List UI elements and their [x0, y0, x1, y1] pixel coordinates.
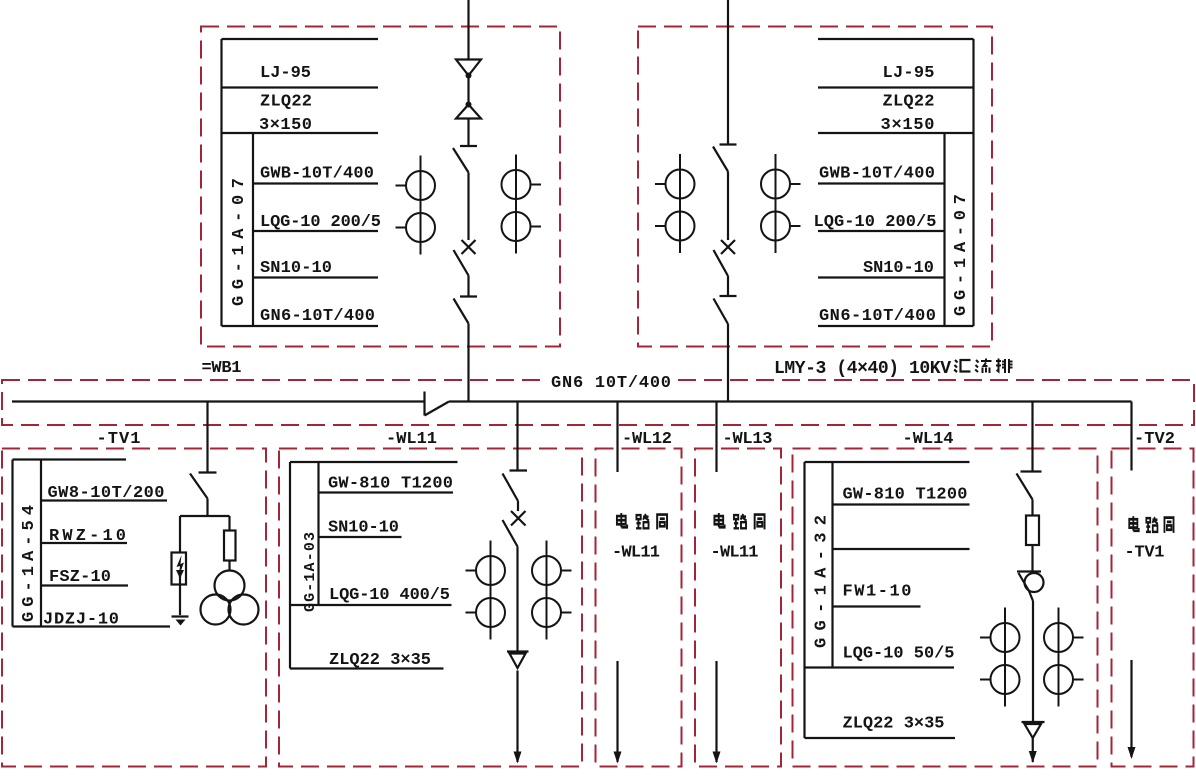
svg-text:-WL12: -WL12: [622, 430, 672, 449]
svg-text:GG-1A-07: GG-1A-07: [230, 178, 249, 306]
svg-text:SN10-10: SN10-10: [328, 519, 399, 538]
svg-text:FSZ-10: FSZ-10: [49, 568, 111, 587]
svg-text:LJ-95: LJ-95: [260, 64, 311, 83]
svg-text:GN6-10T/400: GN6-10T/400: [819, 307, 936, 326]
svg-text:SN10-10: SN10-10: [863, 259, 934, 278]
svg-text:LQG-10 50/5: LQG-10 50/5: [843, 645, 955, 664]
svg-text:LQG-10 200/5: LQG-10 200/5: [814, 213, 937, 232]
svg-text:FW1-10: FW1-10: [843, 583, 912, 602]
svg-text:3×150: 3×150: [881, 116, 935, 135]
svg-text:-WL11: -WL11: [612, 544, 660, 563]
svg-text:SN10-10: SN10-10: [260, 259, 332, 278]
svg-text:LJ-95: LJ-95: [883, 64, 935, 83]
svg-text:ZLQ22 3×35: ZLQ22 3×35: [329, 651, 431, 670]
svg-text:GG-1A-32: GG-1A-32: [813, 515, 832, 648]
svg-text:-WL14: -WL14: [903, 430, 954, 449]
svg-text:GN6-10T/400: GN6-10T/400: [260, 307, 375, 326]
svg-text:GN6 10T/400: GN6 10T/400: [551, 374, 671, 393]
svg-text:GWB-10T/400: GWB-10T/400: [819, 165, 935, 184]
svg-text:-TV2: -TV2: [1134, 430, 1175, 449]
svg-text:GW8-10T/200: GW8-10T/200: [48, 484, 165, 503]
svg-text:GW-810 T1200: GW-810 T1200: [328, 475, 453, 494]
svg-text:GG-1A-54: GG-1A-54: [20, 505, 39, 622]
svg-text:JDZJ-10: JDZJ-10: [43, 611, 119, 630]
svg-text:-TV1: -TV1: [1125, 544, 1165, 563]
svg-text:ZLQ22 3×35: ZLQ22 3×35: [843, 715, 945, 734]
svg-text:3×150: 3×150: [259, 116, 312, 135]
svg-text:GG-1A-03: GG-1A-03: [302, 532, 319, 612]
svg-text:LMY-3 (4×40) 10KV: LMY-3 (4×40) 10KV: [774, 359, 951, 379]
svg-text:LQG-10 400/5: LQG-10 400/5: [329, 586, 450, 605]
svg-text:GWB-10T/400: GWB-10T/400: [260, 165, 374, 184]
svg-text:=WB1: =WB1: [202, 359, 242, 378]
svg-text:LQG-10 200/5: LQG-10 200/5: [260, 213, 381, 232]
svg-text:ZLQ22: ZLQ22: [883, 93, 935, 112]
svg-text:-WL11: -WL11: [386, 430, 437, 449]
svg-text:-TV1: -TV1: [97, 430, 141, 449]
svg-text:GW-810 T1200: GW-810 T1200: [843, 486, 968, 505]
svg-text:-WL13: -WL13: [723, 430, 773, 449]
svg-text:-WL11: -WL11: [711, 544, 759, 563]
svg-text:GG-1A-07: GG-1A-07: [952, 194, 971, 316]
svg-text:ZLQ22: ZLQ22: [260, 93, 312, 112]
